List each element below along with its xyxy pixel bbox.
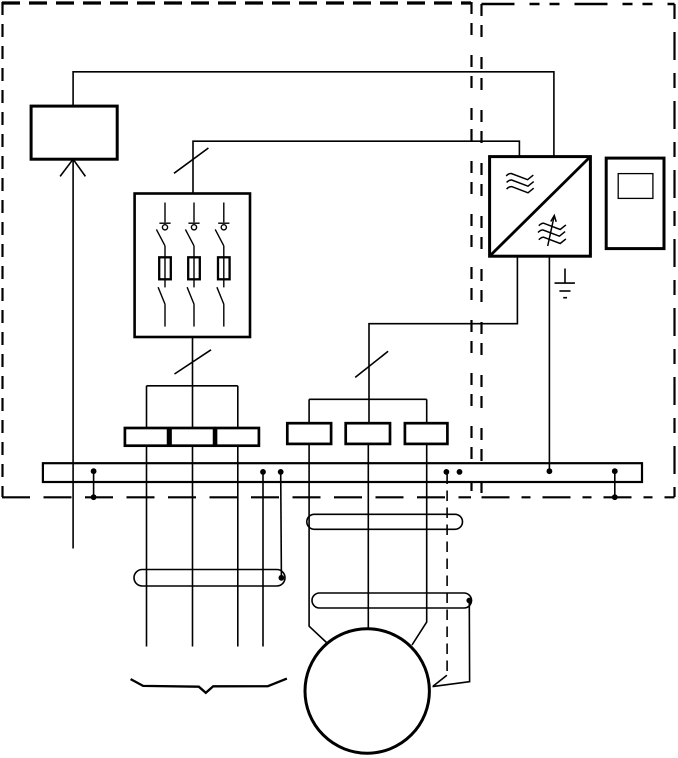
enclosure: filter area dash-dot border bottom edge	[482, 496, 675, 498]
wire	[426, 399, 428, 423]
busbar: PE gland plate bar	[43, 463, 642, 482]
wire: screen core from busbar to clamp	[280, 472, 283, 578]
wire	[237, 386, 239, 428]
enclosure: cabinet dashed border left edge	[1, 2, 3, 497]
brace: supply cable group bracket	[131, 679, 287, 693]
junction dots on busbar	[91, 468, 97, 474]
ground symbol near converter	[555, 269, 575, 298]
cable gland 1 (supply cable)	[125, 428, 168, 446]
cable gland 2 (supply cable)	[171, 428, 215, 446]
wire: busbar bond to cabinet (left)	[93, 470, 95, 497]
junction: screen bond on lower clamp	[466, 598, 472, 604]
enclosure: cabinet dashed border right edge	[470, 2, 472, 497]
frequency converter U1 box	[490, 157, 591, 257]
cable gland 5 (motor cable)	[346, 423, 390, 444]
wire: top-left box to converter top (upper run)	[73, 72, 554, 157]
fuse-switch disconnector box	[135, 194, 250, 338]
diagonal divider of converter symbol	[491, 158, 590, 256]
node: branch of supply cable into three cores	[147, 385, 238, 387]
cable gland 3 (supply cable)	[216, 428, 259, 446]
cable gland 6 (motor cable)	[405, 423, 448, 444]
wire: PE tail into motor frame	[433, 675, 447, 686]
wire: PE core from busbar	[262, 472, 264, 647]
wave symbol: input AC (3 waves)	[506, 173, 534, 192]
enclosure: filter area dash-dot border (right rectangle) top edge	[482, 3, 675, 5]
wire: PE conductor (dashed) from busbar to motor	[446, 474, 448, 676]
frequency converter wire to busbar	[548, 256, 550, 471]
node: branch of motor cable into three cores	[309, 398, 427, 400]
motor M	[305, 629, 429, 753]
enclosure: filter area dash-dot border right edge	[673, 4, 675, 497]
wave symbol: variable-frequency output (3 waves)	[538, 223, 566, 243]
converter output wire down to motor branch	[369, 256, 517, 423]
wire	[146, 386, 148, 428]
cable clamp: motor cable clamp lower	[312, 593, 472, 608]
fuse-switch pole 1	[156, 203, 170, 327]
wire: fuse-switch bottom feeder	[192, 337, 194, 428]
cable clamp: supply cable clamp	[134, 570, 285, 587]
slash: 3-phase mark on supply wire	[174, 148, 208, 173]
control panel display window	[618, 174, 653, 199]
arrow: supply direction arrowhead at box bottom	[60, 159, 73, 176]
wire: left cores through gland plate down to cable	[146, 446, 148, 647]
wire: supply line into top-left box	[72, 159, 74, 548]
slash: 3-phase mark below fuse-switch	[175, 350, 212, 374]
fuse-switch pole 2	[185, 203, 199, 327]
wire	[308, 399, 310, 423]
enclosure: cabinet dashed border (left rectangle) top edge	[2, 1, 471, 4]
junction: screen bond on clamp	[279, 575, 285, 581]
control panel box	[606, 158, 664, 249]
cable gland 4 (motor cable)	[287, 423, 331, 444]
wire: screen bond from lower clamp to motor frame	[433, 601, 470, 687]
enclosure: filter area dash-dot border left edge	[480, 4, 482, 497]
slash: 3-phase mark on motor feeder	[355, 351, 388, 377]
arrow: variability arrow across output waves	[548, 216, 557, 247]
wire: motor cores through gland plate to motor	[309, 444, 326, 643]
supply unit box (top-left)	[31, 106, 117, 159]
wire: fuse-switch top to converter top (lower run)	[193, 141, 519, 193]
wire: busbar bond to enclosure (right)	[614, 470, 616, 497]
enclosure: cabinet dashed border bottom edge	[2, 496, 471, 498]
cable clamp: motor cable clamp upper	[307, 514, 463, 529]
fuse-switch pole 3	[215, 203, 229, 327]
